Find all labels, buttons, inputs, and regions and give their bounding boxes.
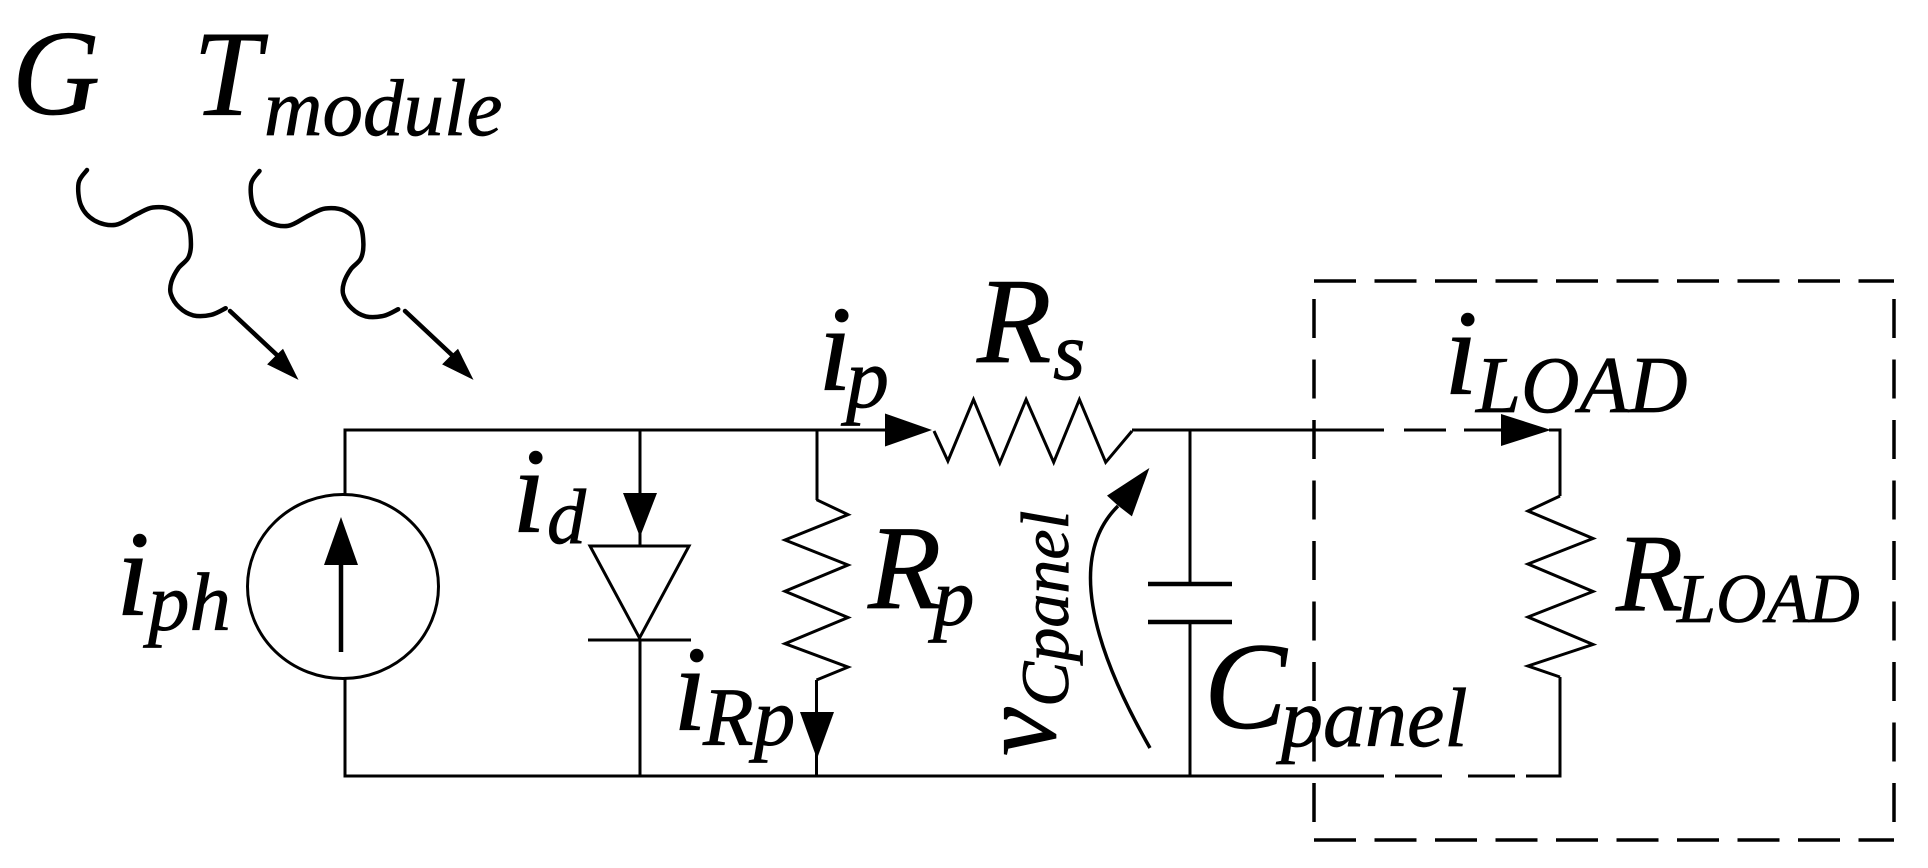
svg-text:p: p <box>928 551 975 643</box>
svg-text:R: R <box>976 254 1052 389</box>
svg-text:LOAD: LOAD <box>1475 340 1688 430</box>
svg-text:i: i <box>673 622 707 757</box>
svg-text:i: i <box>1444 286 1478 421</box>
svg-text:R: R <box>867 501 941 634</box>
svg-text:G: G <box>12 6 100 141</box>
svg-text:v: v <box>957 707 1079 756</box>
svg-text:d: d <box>547 473 587 560</box>
svg-text:R: R <box>1615 512 1683 634</box>
svg-text:Cpanel: Cpanel <box>1007 511 1083 707</box>
svg-text:panel: panel <box>1276 672 1468 765</box>
svg-text:p: p <box>840 330 889 426</box>
svg-text:LOAD: LOAD <box>1676 561 1860 638</box>
svg-text:C: C <box>1204 618 1288 755</box>
svg-text:ph: ph <box>143 556 231 648</box>
svg-text:s: s <box>1053 305 1085 397</box>
svg-text:T: T <box>193 7 269 142</box>
svg-text:Rp: Rp <box>702 671 795 763</box>
svg-text:i: i <box>116 507 150 642</box>
svg-text:i: i <box>512 424 546 559</box>
svg-text:module: module <box>264 63 502 153</box>
